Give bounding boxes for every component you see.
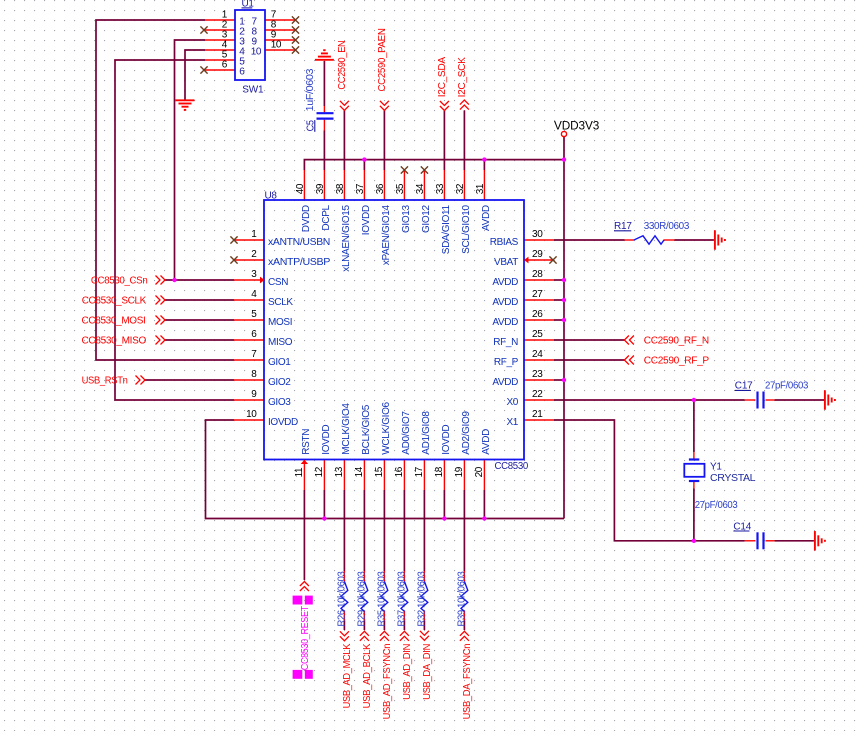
svg-text:12: 12 bbox=[314, 466, 325, 477]
svg-text:29: 29 bbox=[532, 249, 543, 260]
svg-text:10: 10 bbox=[251, 47, 262, 58]
svg-text:1uF/0603: 1uF/0603 bbox=[305, 68, 316, 111]
svg-text:MCLK/GIO4: MCLK/GIO4 bbox=[341, 403, 352, 455]
svg-text:330R/0603: 330R/0603 bbox=[644, 221, 690, 232]
svg-text:RF_P: RF_P bbox=[494, 357, 519, 368]
svg-text:GIO12: GIO12 bbox=[421, 205, 432, 233]
svg-text:VBAT: VBAT bbox=[494, 257, 518, 268]
svg-text:SW1: SW1 bbox=[242, 85, 264, 96]
svg-text:5: 5 bbox=[251, 309, 257, 320]
svg-text:CC2590_EN: CC2590_EN bbox=[337, 40, 348, 89]
svg-text:USB_AD_MCLK: USB_AD_MCLK bbox=[342, 643, 353, 708]
svg-text:USB_AD_FSYNCn: USB_AD_FSYNCn bbox=[382, 644, 393, 720]
svg-text:R29 10k/0603: R29 10k/0603 bbox=[356, 571, 367, 627]
svg-text:MISO: MISO bbox=[268, 337, 293, 348]
svg-text:21: 21 bbox=[532, 409, 543, 420]
svg-text:RF_N: RF_N bbox=[493, 337, 518, 348]
svg-text:CC8530_MOSI: CC8530_MOSI bbox=[82, 316, 146, 327]
svg-text:7: 7 bbox=[251, 349, 257, 360]
svg-text:CC2590_RF_P: CC2590_RF_P bbox=[644, 356, 710, 367]
svg-text:AVDD: AVDD bbox=[492, 377, 518, 388]
svg-text:1: 1 bbox=[251, 229, 257, 240]
svg-text:R26 10k/0603: R26 10k/0603 bbox=[336, 571, 347, 627]
svg-text:22: 22 bbox=[532, 389, 543, 400]
svg-text:IOVDD: IOVDD bbox=[321, 425, 332, 455]
svg-text:AD1/GIO8: AD1/GIO8 bbox=[421, 411, 432, 455]
svg-text:GIO3: GIO3 bbox=[268, 397, 291, 408]
svg-text:16: 16 bbox=[394, 466, 405, 477]
svg-text:MOSI: MOSI bbox=[268, 317, 292, 328]
svg-text:CC2590_PAEN: CC2590_PAEN bbox=[377, 28, 388, 91]
svg-text:GIO13: GIO13 bbox=[401, 205, 412, 233]
svg-text:SCLK: SCLK bbox=[268, 297, 293, 308]
svg-text:xLNAEN/GIO15: xLNAEN/GIO15 bbox=[341, 205, 352, 272]
svg-text:15: 15 bbox=[374, 466, 385, 477]
svg-text:IOVDD: IOVDD bbox=[441, 425, 452, 455]
svg-text:AVDD: AVDD bbox=[481, 205, 492, 231]
svg-text:30: 30 bbox=[532, 229, 543, 240]
svg-text:I2C_SCK: I2C_SCK bbox=[457, 57, 468, 98]
svg-text:BCLK/GIO5: BCLK/GIO5 bbox=[361, 404, 372, 454]
svg-text:R32 10k/0603: R32 10k/0603 bbox=[416, 571, 427, 627]
svg-text:VDD3V3: VDD3V3 bbox=[554, 121, 599, 133]
svg-text:27pF/0603: 27pF/0603 bbox=[695, 500, 738, 511]
svg-text:4: 4 bbox=[251, 289, 257, 300]
svg-text:RBIAS: RBIAS bbox=[490, 237, 519, 248]
svg-text:DVDD: DVDD bbox=[301, 205, 312, 232]
svg-text:GIO2: GIO2 bbox=[268, 377, 291, 388]
svg-text:8: 8 bbox=[251, 369, 257, 380]
svg-text:17: 17 bbox=[414, 466, 425, 477]
svg-text:R37 10k/0603: R37 10k/0603 bbox=[396, 571, 407, 627]
svg-text:39: 39 bbox=[315, 183, 326, 194]
svg-text:CSN: CSN bbox=[268, 277, 288, 288]
svg-text:13: 13 bbox=[334, 466, 345, 477]
svg-text:R39 10k/0603: R39 10k/0603 bbox=[456, 571, 467, 627]
svg-text:25: 25 bbox=[532, 329, 543, 340]
svg-text:Y1: Y1 bbox=[710, 462, 722, 473]
svg-text:AVDD: AVDD bbox=[492, 277, 518, 288]
svg-text:xANTP/USBP: xANTP/USBP bbox=[268, 257, 331, 268]
svg-text:40: 40 bbox=[295, 183, 306, 194]
svg-text:DCPL: DCPL bbox=[321, 205, 332, 231]
svg-text:xANTN/USBN: xANTN/USBN bbox=[268, 237, 330, 248]
svg-text:CC8530_RESET: CC8530_RESET bbox=[300, 606, 311, 670]
svg-text:CC8530_SCLK: CC8530_SCLK bbox=[82, 296, 147, 307]
svg-text:USB_DA_FSYNCn: USB_DA_FSYNCn bbox=[462, 644, 473, 720]
svg-text:CC2590_RF_N: CC2590_RF_N bbox=[644, 336, 709, 347]
svg-text:AD0/GIO7: AD0/GIO7 bbox=[401, 411, 412, 455]
svg-text:AD2/GIO9: AD2/GIO9 bbox=[461, 411, 472, 455]
svg-text:10: 10 bbox=[271, 40, 282, 51]
svg-text:18: 18 bbox=[434, 466, 445, 477]
svg-text:24: 24 bbox=[532, 349, 543, 360]
svg-text:33: 33 bbox=[435, 183, 446, 194]
svg-text:32: 32 bbox=[455, 183, 466, 194]
svg-text:36: 36 bbox=[375, 183, 386, 194]
svg-text:SDA/GIO11: SDA/GIO11 bbox=[441, 205, 452, 255]
svg-text:14: 14 bbox=[354, 466, 365, 477]
svg-text:CC8530_MISO: CC8530_MISO bbox=[82, 336, 147, 347]
svg-text:CC8530_CSn: CC8530_CSn bbox=[91, 276, 148, 287]
svg-text:USB_DA_DIN: USB_DA_DIN bbox=[422, 644, 433, 700]
svg-text:11: 11 bbox=[294, 467, 305, 477]
svg-text:IOVDD: IOVDD bbox=[268, 417, 298, 428]
svg-text:xPAEN/GIO14: xPAEN/GIO14 bbox=[381, 205, 392, 266]
svg-text:27pF/0603: 27pF/0603 bbox=[765, 381, 809, 392]
svg-text:CRYSTAL: CRYSTAL bbox=[710, 473, 756, 484]
svg-text:6: 6 bbox=[222, 60, 228, 71]
svg-text:X1: X1 bbox=[506, 417, 518, 428]
svg-text:28: 28 bbox=[532, 269, 543, 280]
svg-text:27: 27 bbox=[532, 289, 543, 300]
svg-text:SCL/GIO10: SCL/GIO10 bbox=[461, 205, 472, 254]
svg-text:3: 3 bbox=[251, 269, 257, 280]
svg-text:20: 20 bbox=[474, 466, 485, 477]
svg-text:R35 10k/0603: R35 10k/0603 bbox=[376, 571, 387, 627]
svg-text:IOVDD: IOVDD bbox=[361, 205, 372, 235]
svg-text:2: 2 bbox=[251, 249, 257, 260]
svg-text:GIO1: GIO1 bbox=[268, 357, 291, 368]
svg-text:RSTN: RSTN bbox=[301, 429, 312, 455]
svg-text:19: 19 bbox=[454, 466, 465, 477]
svg-text:AVDD: AVDD bbox=[492, 297, 518, 308]
svg-text:31: 31 bbox=[475, 183, 486, 194]
svg-text:AVDD: AVDD bbox=[492, 317, 518, 328]
svg-text:37: 37 bbox=[355, 183, 366, 194]
svg-text:34: 34 bbox=[415, 183, 426, 194]
svg-text:USB_AD_DIN: USB_AD_DIN bbox=[402, 644, 413, 700]
svg-text:WCLK/GIO6: WCLK/GIO6 bbox=[381, 401, 392, 454]
svg-text:U8: U8 bbox=[265, 191, 278, 202]
svg-text:38: 38 bbox=[335, 183, 346, 194]
svg-text:USB_RSTn: USB_RSTn bbox=[82, 376, 128, 387]
svg-text:USB_AD_BCLK: USB_AD_BCLK bbox=[362, 643, 373, 708]
svg-text:35: 35 bbox=[395, 183, 406, 194]
svg-text:X0: X0 bbox=[506, 397, 518, 408]
svg-text:CC8530: CC8530 bbox=[495, 461, 529, 472]
svg-text:26: 26 bbox=[532, 309, 543, 320]
svg-text:AVDD: AVDD bbox=[481, 429, 492, 455]
svg-text:10: 10 bbox=[246, 409, 257, 420]
svg-text:I2C_SDA: I2C_SDA bbox=[437, 57, 448, 98]
svg-text:6: 6 bbox=[251, 329, 257, 340]
svg-text:6: 6 bbox=[239, 67, 245, 78]
svg-text:9: 9 bbox=[251, 389, 257, 400]
svg-text:23: 23 bbox=[532, 369, 543, 380]
